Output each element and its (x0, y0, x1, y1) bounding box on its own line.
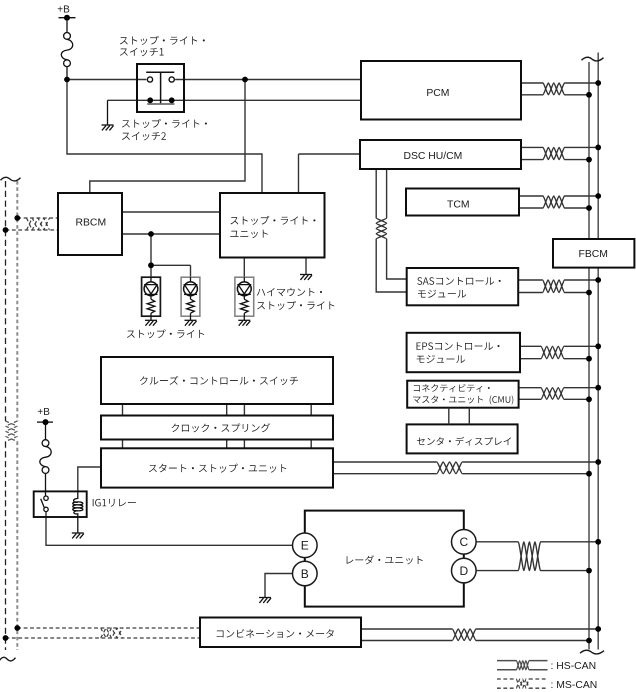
svg-text:D: D (459, 564, 468, 578)
svg-text:TCM: TCM (447, 200, 470, 211)
svg-text:DSC HU/CM: DSC HU/CM (403, 151, 462, 162)
svg-text:+B: +B (37, 407, 50, 418)
svg-text:C: C (459, 535, 468, 549)
svg-text:B: B (301, 567, 309, 581)
svg-text:: MS-CAN: : MS-CAN (551, 680, 598, 691)
svg-text:: HS-CAN: : HS-CAN (551, 661, 597, 672)
svg-text:FBCM: FBCM (578, 249, 607, 260)
svg-text:PCM: PCM (426, 88, 449, 99)
svg-text:+B: +B (57, 5, 70, 16)
svg-text:E: E (301, 539, 309, 553)
svg-text:RBCM: RBCM (76, 218, 107, 229)
